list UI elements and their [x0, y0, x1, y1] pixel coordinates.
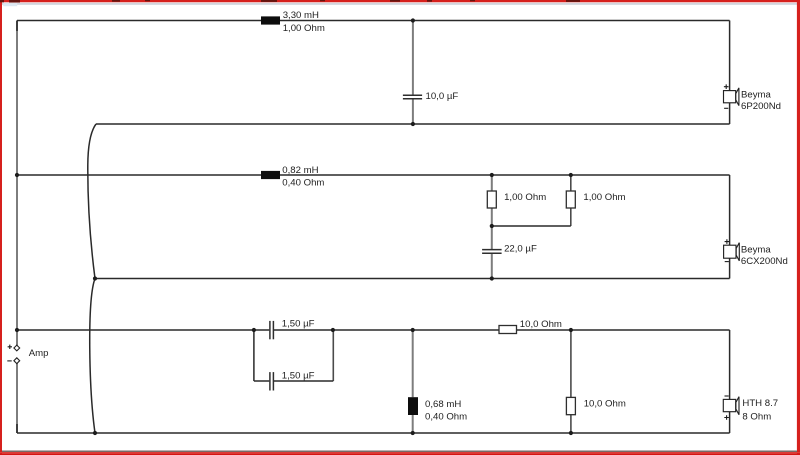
- svg-text:0,68 mH: 0,68 mH: [425, 399, 461, 410]
- svg-text:Amp: Amp: [29, 348, 49, 359]
- svg-text:10,0 Ohm: 10,0 Ohm: [520, 319, 562, 330]
- svg-text:10,0 µF: 10,0 µF: [426, 91, 459, 102]
- svg-text:6P200Nd: 6P200Nd: [741, 101, 781, 112]
- svg-text:10,0 Ohm: 10,0 Ohm: [584, 399, 626, 410]
- svg-text:0,40 Ohm: 0,40 Ohm: [425, 411, 467, 422]
- svg-text:1,00 Ohm: 1,00 Ohm: [283, 23, 325, 34]
- svg-text:3,30 mH: 3,30 mH: [283, 10, 319, 21]
- svg-text:1,50 µF: 1,50 µF: [282, 319, 315, 330]
- svg-text:8 Ohm: 8 Ohm: [742, 411, 771, 422]
- svg-text:0,82 mH: 0,82 mH: [282, 165, 318, 176]
- svg-text:1,00 Ohm: 1,00 Ohm: [504, 192, 546, 203]
- svg-text:HTH 8.7: HTH 8.7: [742, 398, 778, 409]
- svg-text:22,0 µF: 22,0 µF: [504, 243, 537, 254]
- svg-text:6CX200Nd: 6CX200Nd: [741, 256, 788, 267]
- svg-text:Beyma: Beyma: [741, 245, 772, 256]
- svg-text:Beyma: Beyma: [741, 90, 772, 101]
- svg-text:0,40 Ohm: 0,40 Ohm: [282, 178, 324, 189]
- svg-text:1,50 µF: 1,50 µF: [282, 371, 315, 382]
- svg-text:1,00 Ohm: 1,00 Ohm: [583, 192, 625, 203]
